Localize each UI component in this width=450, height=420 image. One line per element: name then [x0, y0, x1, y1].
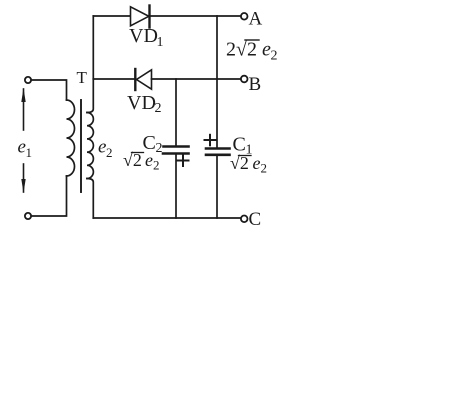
transformer T primary winding — [67, 100, 75, 176]
wire secondary top lead — [87, 79, 93, 113]
label VD1 — [129, 25, 164, 50]
svg-text:1: 1 — [157, 35, 164, 50]
svg-text:B: B — [249, 74, 262, 95]
label A — [249, 9, 263, 30]
svg-text:A: A — [249, 9, 263, 30]
capacitor C1 — [206, 149, 230, 155]
label VD2 — [127, 92, 162, 116]
wire primary bottom lead — [31, 176, 66, 216]
svg-text:e: e — [145, 150, 153, 170]
svg-text:1: 1 — [26, 145, 33, 160]
label B — [249, 74, 262, 95]
wire B rail right — [152, 78, 241, 80]
svg-text:VD: VD — [129, 25, 158, 47]
plus sign C2 — [178, 156, 189, 167]
transformer T secondary winding — [87, 113, 93, 179]
wire B rail left — [93, 78, 135, 80]
terminal A — [241, 13, 248, 20]
label T — [77, 68, 88, 87]
e1 source arrow down — [21, 164, 25, 193]
label e2 secondary — [98, 137, 113, 161]
svg-text:2: 2 — [261, 161, 268, 176]
label C — [249, 209, 262, 230]
svg-text:2: 2 — [153, 158, 160, 173]
wire top rail right — [150, 15, 241, 17]
e1 source arrow up — [21, 88, 25, 130]
svg-text:VD: VD — [127, 92, 156, 114]
svg-text:2: 2 — [156, 141, 163, 156]
transformer core — [80, 100, 82, 192]
wire secondary bottom lead — [87, 179, 93, 219]
svg-text:C: C — [249, 209, 262, 230]
svg-text:T: T — [77, 68, 88, 87]
label C1 — [233, 134, 253, 158]
label e1 — [18, 137, 33, 161]
wire top rail left — [93, 15, 130, 17]
svg-text:2: 2 — [106, 145, 113, 160]
svg-text:2: 2 — [155, 101, 162, 116]
terminal primary top — [25, 77, 31, 83]
terminal primary bottom — [25, 213, 31, 219]
label 2sqrt2e2 output voltage — [226, 39, 278, 64]
wire primary top lead — [31, 80, 66, 100]
wire C1 upper branch — [216, 16, 218, 147]
diode VD2 — [135, 69, 151, 90]
label sqrt2e2 for C1 — [230, 153, 267, 176]
diode VD1 — [131, 6, 150, 28]
svg-text:e: e — [253, 153, 261, 173]
label C2 — [143, 132, 163, 156]
wire left rail top (secondary top to VD1 row) — [92, 16, 94, 79]
terminal C — [241, 216, 248, 223]
svg-text:2: 2 — [226, 39, 236, 61]
wire C2 bottom branch — [175, 155, 177, 218]
svg-text:√2: √2 — [236, 39, 257, 61]
capacitor C2 — [163, 147, 189, 154]
svg-text:2: 2 — [271, 49, 278, 64]
wire bottom rail — [93, 217, 241, 219]
plus sign C1 — [205, 135, 216, 146]
terminal B — [241, 76, 248, 83]
wire C1 lower branch — [216, 156, 218, 218]
wire C2 top branch — [175, 79, 177, 145]
label sqrt2e2 for C2 — [123, 150, 160, 173]
